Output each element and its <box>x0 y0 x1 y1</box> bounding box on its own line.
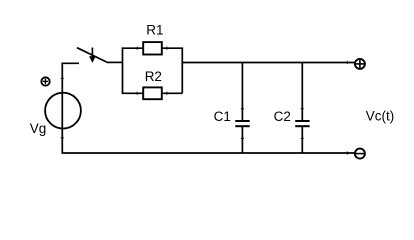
wire: source top corner to switch left contact <box>62 63 79 153</box>
label R2 <box>145 69 162 84</box>
svg-text:R2: R2 <box>145 69 162 84</box>
junction tick on R1 left lead <box>136 47 138 50</box>
wire: C2 top lead <box>301 63 303 121</box>
junction tick on source top wire <box>61 77 64 79</box>
capacitor C1 <box>235 121 249 126</box>
junction tick on C1 top lead <box>241 108 244 110</box>
polarity plus mark of source <box>41 77 49 85</box>
wire: R2 right lead <box>162 92 183 94</box>
wire: R1 right lead <box>162 47 183 49</box>
svg-text:Vc(t): Vc(t) <box>366 109 395 124</box>
junction tick on C1 bottom lead <box>241 137 244 139</box>
wire: top rail to positive terminal <box>182 62 354 64</box>
terminal positive output <box>355 59 365 69</box>
voltage source Vg <box>45 93 81 129</box>
node: right junction of parallel R1/R2 <box>181 47 183 93</box>
label C1 <box>214 109 231 124</box>
junction tick on source bottom wire <box>61 137 64 139</box>
junction tick on R2 left lead <box>136 92 138 95</box>
junction tick on R1 right lead <box>166 47 168 50</box>
label C2 <box>274 109 291 124</box>
wire: C1 bottom lead <box>241 127 243 153</box>
resistor R1 <box>143 42 162 54</box>
wire: C1 top lead <box>241 63 243 121</box>
terminal negative output <box>355 149 365 159</box>
label R1 <box>146 23 163 38</box>
junction tick on R2 right lead <box>166 92 168 95</box>
label Vc(t) <box>366 109 395 124</box>
wire: switch to R1R2 left node <box>107 61 123 63</box>
junction tick on negative terminal lead <box>346 151 348 154</box>
wire: C2 bottom lead <box>301 127 303 153</box>
wire: bottom rail <box>62 152 355 154</box>
junction tick on C2 bottom lead <box>301 137 304 139</box>
switch closing arrow <box>89 48 96 63</box>
svg-text:C1: C1 <box>214 109 231 124</box>
wire: R1 left lead <box>122 47 143 49</box>
label Vg <box>30 121 47 136</box>
switch SW1 blade <box>77 48 107 62</box>
node: left junction of parallel R1/R2 <box>122 47 124 93</box>
resistor R2 <box>143 87 162 99</box>
capacitor C2 <box>295 121 309 126</box>
wire: R2 left lead <box>122 92 143 94</box>
junction tick on positive terminal lead <box>346 61 348 64</box>
svg-text:R1: R1 <box>146 23 163 38</box>
svg-text:C2: C2 <box>274 109 291 124</box>
svg-text:Vg: Vg <box>30 121 47 136</box>
junction tick on C2 top lead <box>301 108 304 110</box>
